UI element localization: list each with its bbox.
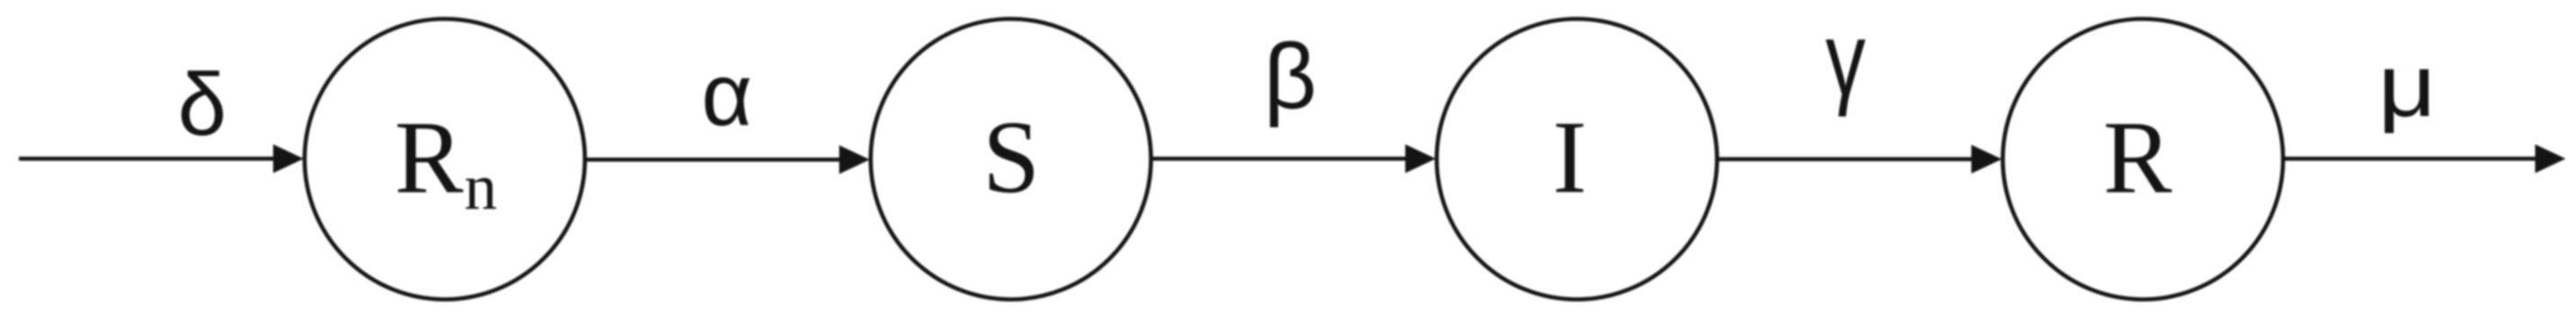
svg-text:δ: δ — [178, 55, 227, 154]
wire beta line S to I — [1151, 156, 1411, 161]
arrowhead into node Rn — [273, 145, 304, 174]
arrowhead into node S — [839, 146, 870, 174]
svg-text:μ: μ — [2378, 37, 2437, 136]
svg-text:Rn: Rn — [394, 101, 497, 224]
node I circle — [1437, 19, 1717, 299]
node R circle — [2003, 19, 2283, 299]
arrowhead outflow tip — [2536, 145, 2566, 174]
wire gamma line I to R — [1717, 157, 1977, 162]
svg-text:R: R — [2103, 101, 2173, 215]
label I — [1553, 101, 1587, 215]
svg-text:γ: γ — [1826, 0, 1866, 117]
svg-text:α: α — [702, 45, 753, 144]
svg-text:S: S — [983, 101, 1040, 215]
wire delta inflow line — [19, 156, 279, 161]
wire mu outflow line — [2283, 156, 2541, 161]
label R — [2103, 101, 2173, 215]
label S — [983, 101, 1040, 215]
label alpha — [702, 45, 753, 144]
label delta — [178, 55, 227, 154]
wire alpha line Rn to S — [585, 157, 845, 162]
svg-text:I: I — [1553, 101, 1587, 215]
arrowhead into node R — [1971, 145, 2002, 174]
label Rn — [394, 101, 497, 224]
label gamma — [1826, 0, 1866, 117]
svg-text:β: β — [1263, 24, 1316, 128]
label beta — [1263, 24, 1316, 128]
node Rn circle — [305, 19, 585, 299]
arrowhead into node I — [1405, 145, 1436, 174]
label mu — [2378, 37, 2437, 136]
node S circle — [871, 19, 1151, 299]
